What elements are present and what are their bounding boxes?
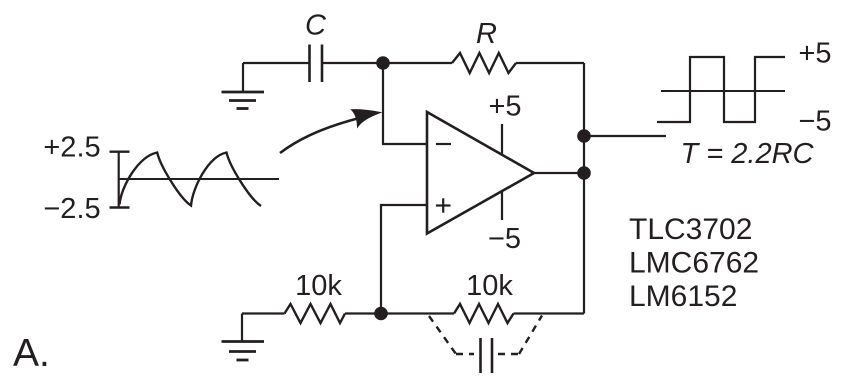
wire R to right rail [516, 62, 584, 64]
op-amp U1 [427, 112, 534, 234]
input sawtooth axis horizontal [119, 178, 280, 180]
svg-text:TLC3702: TLC3702 [629, 213, 752, 246]
svg-text:10k: 10k [466, 270, 513, 302]
svg-text:10k: 10k [295, 270, 342, 302]
wire op-amp output [534, 172, 584, 174]
svg-text:C: C [305, 10, 327, 42]
ground GND1 (top left) [222, 63, 265, 109]
dashed wire right horizontal [498, 353, 519, 355]
wire right rail vertical [583, 63, 585, 314]
node C junction dot (op-amp output) [577, 166, 591, 180]
svg-text:−5: −5 [798, 106, 831, 138]
input sawtooth axis bottom tick [110, 206, 130, 208]
resistor 10k left [285, 304, 346, 323]
svg-text:−5: −5 [488, 223, 521, 255]
wire GND1 to C [243, 62, 309, 64]
ground GND2 (bottom left) [222, 314, 265, 361]
node B junction dot (output tap) [577, 129, 591, 143]
op-amp V- supply stub [501, 192, 503, 220]
square wave output icon [657, 57, 785, 122]
node D junction dot [374, 307, 388, 321]
input sawtooth axis vertical [118, 151, 120, 209]
svg-text:R: R [476, 18, 497, 50]
op-amp V+ supply stub [501, 124, 503, 156]
capacitor optional (dashed branch) [481, 338, 493, 373]
svg-text:A.: A. [13, 332, 50, 375]
wire output tap to waveform [584, 135, 666, 137]
dashed wire right diagonal [519, 316, 542, 355]
svg-text:LM6152: LM6152 [629, 280, 737, 313]
capacitor C [310, 45, 323, 83]
svg-text:T = 2.2RC: T = 2.2RC [681, 138, 815, 170]
wire 10k to node D [345, 312, 454, 314]
wire 10k feedback to right rail [514, 312, 585, 314]
arrow shaft (curved pointer) [280, 119, 357, 153]
wire bottom node to non-inverting input [381, 205, 427, 314]
op-amp plus input symbol [436, 198, 451, 212]
wire GND2 to 10k [242, 312, 285, 314]
op-amp minus input symbol [436, 143, 451, 145]
resistor 10k feedback [454, 304, 514, 323]
wire node A to inverting input [383, 63, 427, 144]
input sawtooth waveform [120, 153, 262, 207]
svg-text:−2.5: −2.5 [43, 193, 100, 225]
input sawtooth axis top tick [110, 150, 130, 152]
svg-text:+2.5: +2.5 [43, 132, 100, 164]
node A junction dot [376, 56, 390, 70]
svg-text:LMC6762: LMC6762 [629, 247, 759, 280]
dashed wire left horizontal [456, 353, 474, 355]
wire C to node A [322, 62, 452, 64]
square wave output icon midline [661, 90, 785, 92]
svg-text:+5: +5 [488, 91, 521, 123]
dashed wire left diagonal (optional cap) [429, 316, 456, 354]
arrowhead [352, 110, 381, 127]
resistor R [452, 53, 516, 73]
svg-text:+5: +5 [798, 38, 831, 70]
